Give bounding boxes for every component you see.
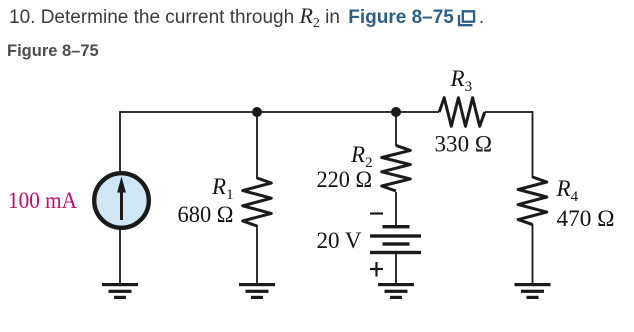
wire current source to ground [119,229,121,285]
wire R2 to battery [395,192,397,226]
ground (current source) [102,283,138,299]
current source I1 100 mA [94,173,149,228]
wire R1 to ground [256,225,258,285]
svg-text:680 Ω: 680 Ω [178,202,234,227]
wire node B down to R2 [395,112,397,146]
node B [391,107,401,117]
plus terminal label [370,262,383,277]
resistor R3 [439,98,485,127]
battery V1 20 V [370,225,421,254]
wire left branch down to current source [119,111,121,173]
wire battery to ground [395,253,397,285]
svg-text:R3: R3 [450,66,473,95]
resistor R4 [518,177,547,225]
svg-text:R1: R1 [211,174,234,203]
wire right branch down to R4 [532,111,534,178]
svg-text:20 V: 20 V [317,228,362,253]
wire node A down to R1 [256,112,258,179]
node A [252,107,262,117]
resistor R1 [243,178,272,226]
wire top-left horizontal [120,111,439,113]
wire top-right horizontal [485,111,533,113]
svg-text:330 Ω: 330 Ω [435,132,493,157]
svg-text:470 Ω: 470 Ω [557,206,615,231]
resistor R2 [382,145,411,191]
svg-text:220 Ω: 220 Ω [317,167,373,192]
wire R4 to ground [532,224,534,285]
ground (R4) [515,283,551,299]
ground (battery) [378,283,414,299]
ground (R1) [239,283,275,299]
svg-text:R4: R4 [556,176,579,205]
svg-text:100 mA: 100 mA [8,188,77,213]
minus terminal label [370,212,383,214]
